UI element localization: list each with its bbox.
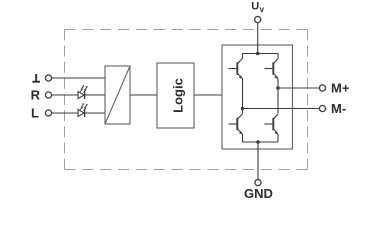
H-bridge block U3 box [222,45,293,149]
wire M- node to Q3 collector [242,109,244,114]
wire Q4 emitter to bottom rail [277,134,279,142]
node terminal M- [319,105,325,111]
node terminal GND [255,180,261,186]
wire Q1 emitter to M- node [242,79,244,110]
wire bottom rail [243,141,279,143]
LED LED1 (R line) [78,85,88,99]
junction dot bottom rail [256,140,260,144]
svg-text:M+: M+ [331,81,350,96]
node terminal L [45,110,51,116]
transistor Q1 (top left) [229,59,243,79]
wire M+ node to Q4 collector [277,88,279,114]
wire logic to H-bridge [194,94,222,96]
wire M+ node to terminal [278,87,319,89]
wire bottom rail to GND [257,142,259,179]
transistor Q2 (top right) [265,59,279,79]
node terminal T1 (perpendicular input) [45,75,51,81]
wire optocoupler to logic [130,94,157,96]
LED LED2 (L line) [78,103,88,117]
optocoupler U1 diagonal [105,66,130,124]
svg-text:Logic: Logic [171,78,186,113]
transistor Q3 (bottom left) [229,114,243,134]
wire LED1 to optocoupler [85,94,105,96]
svg-text:U: U [251,1,259,13]
node terminal M+ [319,85,325,91]
logic block U2 [157,63,194,128]
svg-text:M-: M- [331,101,346,116]
wire L input to LED2 [52,112,78,114]
node terminal R [45,92,51,98]
label perpendicular symbol [32,74,40,82]
dashed enclosure border [65,30,308,170]
wire Q3 emitter to bottom rail [242,134,244,142]
optocoupler U1 box [105,66,130,124]
wire Uv to top rail [257,23,259,54]
junction dot M- node [241,107,245,111]
transistor Q4 (bottom right) [265,114,279,134]
svg-text:L: L [31,106,39,121]
junction dot top rail [256,52,260,56]
label Uv [251,1,264,14]
svg-text:v: v [260,5,265,14]
svg-text:GND: GND [244,186,273,201]
wire perpendicular input to optocoupler [52,77,105,79]
node terminal Uv [255,16,261,22]
wire Q2 emitter to M+ node [277,79,279,89]
wire R input to LED1 [52,94,78,96]
wire LED2 to optocoupler [85,112,105,114]
wire M- node to terminal [243,108,320,110]
svg-text:R: R [31,88,41,103]
junction dot M+ node [276,86,280,90]
wire top rail [243,54,279,59]
